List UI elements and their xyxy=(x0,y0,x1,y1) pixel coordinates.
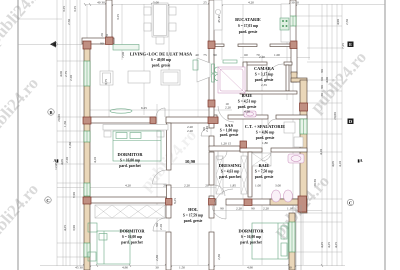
svg-text:2.20: 2.20 xyxy=(184,184,190,188)
radiator baie1 wall xyxy=(212,64,215,73)
wall spine sas segs xyxy=(209,123,214,128)
mid dim line 10,90 xyxy=(55,163,214,165)
door arc baie1 xyxy=(218,106,234,122)
column sas/ct junction xyxy=(240,141,247,148)
svg-text:S = 4,86 mp: S = 4,86 mp xyxy=(256,131,275,135)
svg-text:60: 60 xyxy=(320,77,324,81)
svg-text:75: 75 xyxy=(203,53,207,57)
window ct right xyxy=(300,119,307,134)
svg-text:3.00: 3.00 xyxy=(275,184,281,188)
dim line living width xyxy=(88,109,232,111)
svg-text:70: 70 xyxy=(105,34,109,38)
svg-text:pard. gresie: pard. gresie xyxy=(239,30,258,34)
svg-text:60: 60 xyxy=(244,53,248,57)
wardrobe bed1 xyxy=(103,125,168,131)
wall ct bottom xyxy=(240,148,262,152)
pink fixtures xyxy=(218,67,304,202)
armchair living xyxy=(100,71,113,85)
wall spine living/camara-baie xyxy=(209,44,214,119)
wall right upper step xyxy=(291,48,297,74)
sink baie1 xyxy=(244,111,256,117)
chair right2 xyxy=(169,23,176,31)
window bedroom3 right xyxy=(289,222,295,252)
svg-text:30 10: 30 10 xyxy=(291,0,299,4)
svg-text:25: 25 xyxy=(203,0,207,4)
column spine baie1 xyxy=(208,100,215,107)
kitchen sink xyxy=(215,9,220,14)
wall top-left horizontal xyxy=(82,38,114,44)
tv corner unit xyxy=(197,58,210,82)
bed3 xyxy=(252,223,288,259)
svg-text:90: 90 xyxy=(220,207,224,211)
door arc ct xyxy=(268,119,276,127)
sheet border right xyxy=(384,0,386,270)
svg-text:2.20: 2.20 xyxy=(69,75,73,81)
nightstand bed1 left xyxy=(104,131,111,137)
svg-text:pard. parchet: pard. parchet xyxy=(219,175,241,179)
svg-text:S = 16,00 mp: S = 16,00 mp xyxy=(120,159,140,163)
sideboard living xyxy=(113,45,139,51)
marker C left circle xyxy=(45,197,51,203)
svg-text:DORMITOR: DORMITOR xyxy=(238,229,264,234)
svg-text:4.90: 4.90 xyxy=(247,266,253,270)
marker E right xyxy=(348,42,354,48)
column right wall a xyxy=(300,103,308,111)
door arc baie2 xyxy=(262,152,271,161)
svg-text:S = 17,03 mp: S = 17,03 mp xyxy=(238,24,258,28)
svg-text:▮A: ▮A xyxy=(357,158,362,163)
svg-text:S = 16,00 mp: S = 16,00 mp xyxy=(241,235,261,239)
svg-text:A▮: A▮ xyxy=(53,158,58,163)
svg-text:40 30: 40 30 xyxy=(97,0,105,4)
column living wall mid xyxy=(150,117,156,124)
green furniture xyxy=(88,18,289,264)
svg-text:5.00: 5.00 xyxy=(153,0,159,4)
svg-text:3.25: 3.25 xyxy=(116,14,120,20)
svg-text:2.20: 2.20 xyxy=(187,129,193,133)
window bedroom1 left upper xyxy=(84,131,90,142)
svg-text:1.00: 1.00 xyxy=(255,184,261,188)
svg-text:pard. gresie: pard. gresie xyxy=(220,133,239,137)
stove kitchen xyxy=(280,18,289,30)
bathtub baie1 xyxy=(218,67,245,93)
svg-text:2.20: 2.20 xyxy=(225,106,231,110)
nightstand bed2 xyxy=(88,223,97,232)
dressing closet left xyxy=(216,156,223,194)
svg-text:pard. gresie: pard. gresie xyxy=(255,175,274,179)
wall dressing-baie2 bottom xyxy=(214,199,216,205)
svg-text:4.00: 4.00 xyxy=(59,71,63,77)
column kitchen left xyxy=(208,41,215,49)
door arc dressing top xyxy=(218,151,227,160)
wall spine kitchen/living xyxy=(209,0,214,44)
column baie2 left xyxy=(244,199,252,206)
svg-text:LIVING+LOC DE LUAT MASA: LIVING+LOC DE LUAT MASA xyxy=(130,52,193,57)
washing machine circles baie1 xyxy=(215,67,221,73)
svg-text:90: 90 xyxy=(251,207,255,211)
radiator living xyxy=(193,60,198,70)
door arc hol to bed3 xyxy=(212,205,226,219)
svg-text:2.20: 2.20 xyxy=(263,207,269,211)
wall right middle xyxy=(300,80,307,213)
right dim chain lines xyxy=(321,4,323,266)
svg-text:2.50: 2.50 xyxy=(67,19,71,25)
svg-text:4.20: 4.20 xyxy=(125,184,131,188)
dining table xyxy=(152,3,168,37)
svg-text:1.50: 1.50 xyxy=(179,266,185,270)
column hol east xyxy=(209,199,216,206)
sink baie2 xyxy=(288,154,304,163)
svg-text:30: 30 xyxy=(288,266,292,270)
svg-text:S = 16,00 mp: S = 16,00 mp xyxy=(122,235,142,239)
plant symbol xyxy=(110,109,132,113)
wall bedroom2 top xyxy=(84,197,166,203)
svg-text:2.20: 2.20 xyxy=(205,126,209,132)
boiler ct xyxy=(284,122,295,133)
svg-text:2.75: 2.75 xyxy=(64,71,68,77)
bottom dimension line xyxy=(40,265,345,267)
dim line camara row xyxy=(240,57,310,59)
svg-text:45 30: 45 30 xyxy=(75,266,83,270)
chair bottom xyxy=(156,37,164,44)
window living left xyxy=(84,61,90,86)
chair left2 xyxy=(144,23,151,31)
svg-text:E: E xyxy=(349,42,352,47)
svg-text:S = 1,00 mp: S = 1,00 mp xyxy=(220,129,239,133)
dim line bedroom row xyxy=(57,187,240,189)
wall exterior left xyxy=(84,44,90,270)
svg-text:80: 80 xyxy=(320,69,324,73)
bed1 xyxy=(113,131,161,161)
column top-left nook xyxy=(106,37,114,45)
extension verticals xyxy=(86,4,88,265)
svg-text:10,90: 10,90 xyxy=(185,159,196,164)
top dimension line xyxy=(85,4,385,6)
chair left1 xyxy=(144,7,151,15)
svg-text:1.00: 1.00 xyxy=(274,53,280,57)
dim line bottom rooms row xyxy=(210,210,322,212)
washer ct xyxy=(294,137,303,147)
wall living/bedroom1 xyxy=(90,117,156,123)
chair right1 xyxy=(169,7,176,15)
svg-text:90: 90 xyxy=(213,53,217,57)
door arc hol to bed2 xyxy=(153,218,166,231)
svg-text:DORMITOR: DORMITOR xyxy=(117,152,143,157)
svg-text:90: 90 xyxy=(100,42,104,46)
sofa living xyxy=(161,70,180,85)
window bedroom2 left xyxy=(84,243,90,257)
column hol west xyxy=(166,199,173,206)
left margin connector lines xyxy=(57,116,84,118)
wall right bedroom xyxy=(289,213,295,270)
wall hol west lower xyxy=(166,203,171,218)
svg-text:BUCATARIE: BUCATARIE xyxy=(235,17,261,22)
svg-text:4.00: 4.00 xyxy=(325,77,329,83)
green shelf baie1 top xyxy=(223,60,237,63)
svg-text:C: C xyxy=(349,201,352,206)
rotated dims left margin xyxy=(54,6,350,261)
svg-text:S = 17,59 mp: S = 17,59 mp xyxy=(183,214,203,218)
svg-text:3.25: 3.25 xyxy=(62,6,66,12)
svg-text:20: 20 xyxy=(205,184,209,188)
svg-text:C: C xyxy=(46,198,49,203)
svg-text:70: 70 xyxy=(256,53,260,57)
svg-text:pard. gresie: pard. gresie xyxy=(238,105,257,109)
window bedroom1 left xyxy=(84,183,90,196)
svg-text:DORMITOR: DORMITOR xyxy=(119,229,145,234)
wall sas bottom xyxy=(209,146,240,151)
svg-text:BAIE: BAIE xyxy=(259,163,270,168)
svg-text:pard. parchet: pard. parchet xyxy=(119,164,141,168)
wall top-left nook vertical xyxy=(106,0,112,40)
svg-text:30 30: 30 30 xyxy=(313,179,317,187)
kitchen counter left xyxy=(214,0,222,30)
wall camara left xyxy=(243,62,247,94)
extra left chain lines xyxy=(65,0,67,266)
column left mid xyxy=(83,117,91,124)
svg-text:CAMARA: CAMARA xyxy=(254,66,275,71)
svg-text:S = 3,17 mp: S = 3,17 mp xyxy=(255,73,274,77)
bench bed2 xyxy=(88,252,96,261)
svg-text:80: 80 xyxy=(320,85,324,89)
wall bedroom1/hol upper xyxy=(167,123,172,170)
svg-text:pard. parchet: pard. parchet xyxy=(240,241,262,245)
wall baie1/sas + ct top xyxy=(214,115,217,119)
wall kitchen south xyxy=(215,44,224,47)
right margin connector lines xyxy=(307,47,342,49)
marker A left (section cut) xyxy=(50,41,56,48)
svg-text:20: 20 xyxy=(100,33,104,37)
svg-text:pard. gresie: pard. gresie xyxy=(152,64,171,68)
nightstand bed1 right xyxy=(157,131,164,137)
svg-text:20: 20 xyxy=(163,184,167,188)
wall camara top xyxy=(246,62,267,65)
terrace lines xyxy=(295,205,297,270)
svg-text:4.20: 4.20 xyxy=(248,0,254,4)
door arc sas xyxy=(201,128,209,136)
door arc bedroom1 xyxy=(153,170,167,184)
shower baie2 xyxy=(252,153,271,166)
sheet border left xyxy=(17,0,19,270)
svg-text:3.25: 3.25 xyxy=(73,6,77,12)
wall dressing/baie2 divider xyxy=(248,152,252,197)
bed2 xyxy=(97,231,130,264)
svg-text:40: 40 xyxy=(195,53,199,57)
svg-text:4.90: 4.90 xyxy=(122,266,128,270)
svg-text:B: B xyxy=(49,110,52,115)
column kitchen right xyxy=(290,41,297,49)
dressing closet right xyxy=(241,156,247,194)
column spine living xyxy=(208,117,218,124)
window kitchen xyxy=(290,16,296,26)
wall kitchen right xyxy=(290,0,296,48)
svg-text:2.20: 2.20 xyxy=(259,55,265,59)
svg-text:S = 7,50 mp: S = 7,50 mp xyxy=(255,170,274,174)
door arc dressing from hol xyxy=(214,185,225,196)
svg-text:2.20: 2.20 xyxy=(65,157,69,163)
svg-text:30: 30 xyxy=(155,266,159,270)
svg-text:S = 4,51 mp: S = 4,51 mp xyxy=(238,100,257,104)
svg-text:45 45: 45 45 xyxy=(217,15,221,23)
svg-text:HOL: HOL xyxy=(188,207,198,212)
svg-text:S = 40,00 mp: S = 40,00 mp xyxy=(151,58,171,62)
wall camara right xyxy=(286,65,289,91)
svg-text:DRESSING: DRESSING xyxy=(219,163,242,168)
svg-text:pard. gresie: pard. gresie xyxy=(255,78,274,82)
svg-text:pard. gresie: pard. gresie xyxy=(184,219,203,223)
svg-text:2.20: 2.20 xyxy=(159,224,163,230)
svg-text:30: 30 xyxy=(320,93,324,97)
svg-text:SAS: SAS xyxy=(225,123,234,128)
kitchen counter right xyxy=(281,4,290,42)
marker B left circle xyxy=(48,109,54,115)
bidet baie2 xyxy=(284,190,293,202)
wall spine dressing segs xyxy=(209,152,214,185)
svg-text:C.T. + SPALATORIE: C.T. + SPALATORIE xyxy=(245,124,286,129)
door arc living-bedroom1 xyxy=(156,108,165,117)
column exterior left top xyxy=(83,41,91,49)
axis markers xyxy=(45,41,363,206)
left dim chain lines xyxy=(56,0,58,266)
svg-text:1.10: 1.10 xyxy=(287,207,293,211)
wardrobe bedroom2 xyxy=(95,205,165,218)
coffee table living xyxy=(128,71,150,83)
marker C right xyxy=(347,199,353,205)
wc baie2 xyxy=(272,190,281,202)
svg-text:6.25: 6.25 xyxy=(141,106,147,110)
column left bed2 xyxy=(83,197,91,204)
wall right step connector xyxy=(291,78,307,82)
svg-text:pard. parchet: pard. parchet xyxy=(121,241,143,245)
door arc camara xyxy=(267,64,283,80)
svg-text:2.20: 2.20 xyxy=(236,207,242,211)
wall camara bottom / baie top xyxy=(240,91,297,94)
svg-text:pard. gresie: pard. gresie xyxy=(256,136,275,140)
wall hol east lower xyxy=(209,203,214,218)
column right wall b xyxy=(298,196,307,212)
door arc hol big xyxy=(214,189,233,208)
svg-text:S = 4,63 mp: S = 4,63 mp xyxy=(221,170,240,174)
marker D right xyxy=(348,119,354,125)
